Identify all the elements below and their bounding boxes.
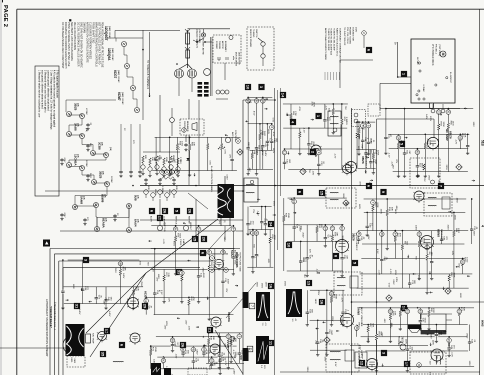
svg-text:140V: 140V: [272, 148, 274, 154]
svg-text:22V: 22V: [328, 108, 330, 112]
waveform 1: [256, 292, 270, 321]
switch contacts: [218, 57, 220, 60]
svg-text:4.5V: 4.5V: [298, 107, 300, 112]
svg-text:3: 3: [237, 336, 241, 338]
svg-text:-1.2V: -1.2V: [324, 105, 326, 111]
svg-text:MOTOR: MOTOR: [221, 41, 223, 49]
svg-text:POWER TUNING: POWER TUNING: [349, 27, 351, 45]
svg-text:75V: 75V: [335, 240, 337, 244]
yoke rail wire: [0, 347, 66, 349]
svg-text:3 Line Voltage maintained at: 3 Line Voltage maintained at 117 volts f…: [50, 70, 53, 130]
svg-text:32: 32: [388, 310, 392, 314]
svg-text:4.5V: 4.5V: [376, 249, 378, 254]
svg-text:[4A]: [4A]: [104, 194, 107, 198]
svg-text:-18V: -18V: [451, 250, 453, 255]
svg-text:-1.2V: -1.2V: [387, 152, 389, 158]
IF mesh b: [283, 103, 348, 105]
svg-text:24: 24: [396, 136, 400, 140]
svg-text:38: 38: [118, 262, 122, 266]
svg-text:135V: 135V: [468, 361, 470, 367]
svg-text:100K: 100K: [273, 235, 275, 241]
svg-text:75V: 75V: [308, 169, 310, 173]
svg-text:22V: 22V: [381, 332, 383, 336]
svg-text:47K: 47K: [336, 232, 338, 236]
svg-text:common ground, otherwise circu: common ground, otherwise circuit noted: [46, 70, 49, 111]
IF tube 2: [311, 145, 321, 155]
heater chain lower: [67, 112, 72, 117]
svg-text:140V: 140V: [150, 345, 152, 351]
svg-text:-18V: -18V: [390, 322, 392, 327]
svg-text:A PHOTOFACT STANDARD NOTATI: A PHOTOFACT STANDARD NOTATION SCHEMAT: [45, 299, 48, 357]
svg-text:265V: 265V: [331, 316, 333, 322]
svg-text:47/2AC: 47/2AC: [85, 108, 88, 115]
power pack terminals: [418, 62, 420, 64]
vert rails: [140, 219, 243, 221]
svg-text:2: 2: [160, 171, 164, 173]
svg-text:82K: 82K: [462, 307, 464, 311]
left lower mesh: [68, 259, 140, 261]
svg-text:[3A]: [3A]: [101, 142, 104, 146]
svg-text:82K: 82K: [371, 323, 373, 327]
svg-text:255V: 255V: [114, 268, 116, 274]
svg-text:1000: 1000: [466, 257, 468, 263]
svg-text:-1.2V: -1.2V: [212, 350, 214, 356]
svg-text:D: D: [248, 348, 252, 351]
svg-text:7: 7: [371, 202, 375, 204]
svg-text:SET TO PRODUCE 20 VOLT PEAK-TO: SET TO PRODUCE 20 VOLT PEAK-TO-: [98, 22, 101, 65]
section marker A: [43, 240, 50, 247]
svg-text:LINE SWITCH: LINE SWITCH: [237, 52, 239, 65]
svg-text:6BN8: 6BN8: [437, 229, 441, 237]
svg-text:4.5V: 4.5V: [253, 111, 255, 116]
svg-text:.0047: .0047: [374, 159, 376, 165]
svg-text:22/2AC: 22/2AC: [110, 176, 113, 183]
svg-text:1000: 1000: [181, 141, 183, 147]
IF tube 3: [336, 240, 349, 253]
svg-text:15: 15: [292, 200, 296, 204]
svg-text:265V: 265V: [341, 235, 343, 241]
svg-text:118V: 118V: [459, 293, 461, 298]
svg-text:4.5V: 4.5V: [358, 181, 360, 186]
svg-text:18K: 18K: [212, 336, 214, 340]
svg-text:5600: 5600: [421, 163, 423, 169]
svg-text:75V: 75V: [361, 144, 363, 148]
svg-text:15: 15: [447, 339, 451, 343]
svg-text:ONE OHM NOT SHOWN ON SCHEMATIC: ONE OHM NOT SHOWN ON SCHEMATIC: [79, 22, 82, 68]
svg-text:-1.2V: -1.2V: [224, 360, 226, 366]
svg-text:[2AB] 22/2AC: [2AB] 22/2AC: [108, 26, 111, 39]
svg-text:118V: 118V: [72, 284, 74, 289]
svg-text:-18V: -18V: [248, 167, 250, 172]
svg-text:[3A]: [3A]: [77, 103, 80, 107]
svg-text:135V: 135V: [455, 198, 457, 204]
bottom center mesh: [208, 332, 243, 334]
svg-text:59: 59: [417, 232, 421, 236]
ion trap: [86, 334, 91, 343]
svg-text:31: 31: [457, 310, 461, 314]
RF amp tube: [427, 137, 438, 148]
svg-text:4.5V: 4.5V: [138, 261, 140, 266]
svg-text:75V: 75V: [170, 169, 172, 173]
svg-text:15: 15: [182, 128, 186, 132]
svg-text:[2AB] 22/2AC: [2AB] 22/2AC: [111, 48, 114, 61]
svg-text:22V: 22V: [423, 178, 425, 182]
svg-text:0.5V: 0.5V: [223, 149, 225, 154]
svg-text:-1.2V: -1.2V: [303, 127, 305, 133]
svg-text:24: 24: [197, 227, 201, 231]
svg-text:36: 36: [254, 231, 258, 235]
svg-text:VERT LIN: VERT LIN: [163, 222, 165, 232]
svg-text:1MEG: 1MEG: [154, 189, 156, 195]
svg-text:7: 7: [250, 305, 254, 307]
svg-text:118V: 118V: [432, 340, 434, 345]
svg-text:47K: 47K: [192, 297, 194, 301]
svg-text:1000: 1000: [451, 121, 453, 127]
svg-text:12DQ6GT: 12DQ6GT: [104, 26, 108, 41]
svg-text:26: 26: [181, 343, 186, 348]
control circles row2: [144, 190, 149, 195]
svg-text:117VAC: 117VAC: [416, 57, 419, 65]
svg-text:[2A]: [2A]: [109, 147, 112, 151]
svg-text:RATIO DET: RATIO DET: [440, 229, 443, 241]
svg-text:140V: 140V: [360, 350, 362, 356]
svg-text:118V: 118V: [157, 274, 159, 279]
thermistor: [170, 118, 175, 123]
svg-text:TO TUNER AB TERMINALS: TO TUNER AB TERMINALS: [146, 60, 149, 89]
svg-text:ASSEMBLY: ASSEMBLY: [224, 41, 227, 53]
svg-text:-1.2V: -1.2V: [259, 129, 261, 135]
svg-text:34: 34: [393, 232, 397, 236]
svg-text:82K: 82K: [175, 186, 177, 190]
motor dashed box: [213, 35, 241, 63]
svg-text:50: 50: [161, 359, 165, 363]
svg-text:-18V: -18V: [367, 235, 369, 240]
svg-text:TUNER TB 380-010MF: TUNER TB 380-010MF: [333, 28, 335, 51]
svg-text:75V: 75V: [146, 262, 148, 266]
svg-text:0.5V: 0.5V: [208, 160, 210, 165]
waveform 2: [286, 289, 302, 317]
svg-text:35: 35: [101, 352, 106, 357]
corner mark: [0, 0, 3, 2]
svg-text:-18V: -18V: [249, 230, 251, 235]
svg-text:50: 50: [461, 260, 465, 264]
svg-text:[1AB] 22/2AC: [1AB] 22/2AC: [121, 92, 124, 105]
marker 16: [268, 283, 274, 289]
svg-text:WAVEFORMS TAKEN WITH CONTROLS: WAVEFORMS TAKEN WITH CONTROLS: [95, 22, 98, 67]
waveform 4: [151, 363, 161, 375]
svg-text:POWER, AB SW: POWER, AB SW: [202, 39, 205, 55]
svg-text:31: 31: [75, 304, 80, 309]
svg-text:82K: 82K: [144, 155, 146, 159]
svg-text:48: 48: [380, 232, 384, 236]
AGC pot: [225, 137, 230, 142]
svg-text:ARROWS ON CONTROLS INDICATE: ARROWS ON CONTROLS INDICATE: [85, 22, 88, 63]
svg-text:34: 34: [269, 222, 274, 227]
audio dashed box lower: [410, 352, 446, 374]
vert out tube: [128, 298, 139, 309]
svg-text:40: 40: [415, 150, 419, 154]
svg-text:VALUE OR APPLICATION: VALUE OR APPLICATION: [73, 22, 76, 50]
svg-text:.0047: .0047: [63, 212, 65, 218]
svg-text:135V: 135V: [394, 270, 396, 276]
svg-text:118V: 118V: [267, 129, 269, 134]
svg-text:40: 40: [355, 326, 359, 330]
svg-text:4.5V: 4.5V: [334, 362, 336, 367]
svg-text:-18V: -18V: [185, 320, 187, 325]
svg-text:5600: 5600: [263, 131, 265, 137]
svg-text:1000: 1000: [457, 228, 459, 234]
svg-text:20: 20: [202, 237, 207, 242]
svg-text:12: 12: [360, 361, 365, 366]
svg-text:19: 19: [261, 99, 265, 103]
svg-text:75V: 75V: [414, 256, 416, 260]
svg-text:0.5V: 0.5V: [160, 290, 162, 295]
svg-text:PAGE 2: PAGE 2: [2, 5, 8, 27]
B+ rail horizontal: [140, 185, 484, 187]
svg-text:75V: 75V: [344, 106, 346, 110]
vert blocking transformer: [218, 184, 235, 218]
power pack tab: [430, 103, 434, 109]
svg-text:31: 31: [357, 232, 361, 236]
svg-text:DC VOLTAGES MEASURED FROM POIN: DC VOLTAGES MEASURED FROM POINT: [61, 22, 64, 69]
waveform 5: [164, 368, 171, 375]
svg-text:-1.2V: -1.2V: [316, 269, 318, 275]
svg-text:22V: 22V: [167, 298, 169, 302]
heater wires lower: [66, 99, 116, 101]
svg-text:6BZ6: 6BZ6: [449, 131, 453, 139]
svg-text:140V: 140V: [108, 311, 110, 317]
svg-text:TUNER TB 380-010MF: TUNER TB 380-010MF: [327, 28, 329, 51]
vert osc tube: [214, 259, 223, 268]
output tube 6EA8A: [211, 317, 221, 327]
svg-text:3BZ6: 3BZ6: [361, 156, 365, 164]
svg-text:140V: 140V: [299, 226, 301, 232]
svg-text:5600: 5600: [89, 173, 91, 179]
svg-text:-18V: -18V: [324, 357, 326, 362]
svg-text:45: 45: [418, 310, 422, 314]
svg-text:75V: 75V: [218, 344, 220, 348]
svg-text:22V: 22V: [395, 159, 397, 163]
waveform letter squares: [249, 303, 255, 309]
svg-text:[1AB] 22/2AC: [1AB] 22/2AC: [117, 70, 120, 83]
svg-text:A11BY: A11BY: [150, 216, 153, 222]
svg-text:75V: 75V: [392, 165, 394, 169]
svg-text:120K: 120K: [376, 202, 378, 208]
svg-text:36: 36: [174, 227, 178, 231]
svg-text:22V: 22V: [428, 361, 430, 365]
svg-text:5600: 5600: [202, 273, 204, 279]
svg-text:PEAK VIDEO SIGNAL AT PICTURE T: PEAK VIDEO SIGNAL AT PICTURE TUBE: [101, 22, 104, 68]
scan edge strip: [0, 0, 2, 375]
svg-text:265V: 265V: [261, 283, 263, 289]
can circle plain: [204, 69, 211, 76]
svg-text:75V: 75V: [314, 340, 316, 344]
svg-text:140V: 140V: [415, 225, 417, 231]
deflection yoke: [63, 336, 81, 354]
rail y231: [60, 230, 243, 232]
svg-text:VOLUME: VOLUME: [397, 336, 399, 346]
svg-text:VHF POWER PACK: VHF POWER PACK: [431, 44, 434, 66]
svg-text:C1023: C1023: [179, 239, 181, 246]
svg-text:MOTOR DRIVE: MOTOR DRIVE: [235, 52, 237, 67]
svg-text:135V: 135V: [395, 277, 397, 283]
svg-text:2 Measured values use from so: 2 Measured values use from socket pin to: [43, 70, 46, 113]
bottom dashed box: [188, 368, 207, 375]
svg-text:140V: 140V: [314, 299, 316, 305]
svg-text:53: 53: [180, 271, 184, 275]
height control: [183, 225, 188, 230]
service switch squares row: [149, 208, 155, 214]
svg-text:39K: 39K: [124, 267, 126, 271]
svg-text:255V: 255V: [255, 282, 257, 288]
svg-text:37: 37: [202, 348, 206, 352]
svg-text:COMPONENT COMBINATIONS 22: COMPONENT COMBINATIONS 22: [338, 28, 341, 63]
svg-text:135V: 135V: [392, 279, 394, 285]
svg-text:-18V: -18V: [174, 354, 176, 359]
FM trap dashed box: [410, 158, 440, 188]
svg-text:C55, C56, C58 &: C55, C56, C58 &: [346, 27, 348, 44]
svg-text:-1.2V: -1.2V: [451, 352, 453, 358]
svg-text:14: 14: [281, 93, 286, 98]
svg-text:255V: 255V: [445, 165, 447, 171]
hatched can right: [188, 69, 197, 78]
svg-text:255V: 255V: [306, 367, 308, 373]
svg-text:(TOP VIEW): (TOP VIEW): [438, 44, 440, 56]
svg-text:57: 57: [210, 359, 214, 363]
svg-text:46: 46: [207, 250, 211, 254]
hatched can left: [175, 69, 184, 78]
svg-text:265V: 265V: [202, 268, 204, 274]
CRT beam lines: [90, 273, 146, 357]
svg-text:5600: 5600: [179, 233, 181, 239]
notes box: [35, 66, 59, 196]
svg-text:1000: 1000: [432, 308, 434, 314]
svg-text:16: 16: [320, 300, 325, 305]
svg-text:140V: 140V: [122, 273, 124, 279]
svg-text:8: 8: [417, 364, 421, 366]
nested corner rails: [49, 249, 51, 375]
svg-text:140V: 140V: [425, 114, 427, 120]
mid mesh left: [155, 136, 241, 138]
on-off switch symbol: [196, 41, 198, 43]
svg-text:DIAGRAM: DIAGRAM: [82, 22, 85, 33]
svg-text:2.2K: 2.2K: [167, 273, 169, 278]
svg-text:9: 9: [236, 140, 240, 142]
svg-text:140V: 140V: [438, 180, 440, 186]
svg-text:-1.2V: -1.2V: [162, 239, 164, 245]
svg-text:19: 19: [144, 299, 148, 303]
terminal dot circle: [201, 33, 205, 37]
svg-text:118V: 118V: [234, 351, 236, 356]
diodes: [176, 147, 179, 150]
svg-text:22V: 22V: [255, 149, 257, 153]
page frame top: [17, 8, 484, 10]
svg-text:DEFL: DEFL: [70, 358, 72, 364]
svg-text:20: 20: [181, 348, 185, 352]
svg-text:23: 23: [437, 110, 441, 114]
svg-text:140V: 140V: [312, 102, 314, 108]
vert amp tube: [130, 333, 140, 343]
svg-text:31: 31: [446, 110, 450, 114]
tuner mesh c: [364, 198, 467, 200]
svg-text:-18V: -18V: [383, 318, 385, 323]
yoke plug box: [67, 356, 85, 367]
cluster caps: [145, 178, 147, 179]
svg-text:3.3MEG: 3.3MEG: [161, 186, 163, 194]
svg-text:3.3MEG: 3.3MEG: [345, 117, 347, 125]
svg-text:140V: 140V: [78, 309, 80, 315]
boost bus triple: [274, 88, 276, 375]
svg-text:-18V: -18V: [311, 170, 313, 175]
svg-text:10: 10: [287, 243, 292, 248]
svg-text:CONNECTOR: CONNECTOR: [352, 27, 354, 41]
tube 6BN8 lower: [414, 191, 424, 201]
remote power dashed box: [247, 27, 274, 70]
audio coil box 2: [326, 344, 359, 372]
mixer dashed boxes: [351, 110, 365, 127]
right margin rule: [479, 9, 481, 375]
svg-text:4.5V: 4.5V: [310, 102, 312, 107]
svg-text:255V: 255V: [302, 257, 304, 263]
right divider: [351, 108, 353, 375]
svg-text:CLOCKWISE ROTATION VIEWED: CLOCKWISE ROTATION VIEWED: [88, 22, 91, 59]
IF mesh d: [288, 197, 347, 199]
svg-text:15: 15: [320, 191, 325, 196]
svg-text:3: 3: [165, 171, 169, 173]
svg-text:4 All controls are the normal: 4 All controls are the normal operation,…: [53, 70, 56, 128]
svg-text:VTVM, NO SIGNAL INPUT, 117VAC: VTVM, NO SIGNAL INPUT, 117VAC LINE: [67, 22, 70, 67]
audio rail: [352, 301, 484, 303]
junction parts: [362, 31, 367, 36]
svg-text:140V: 140V: [264, 151, 266, 157]
svg-text:255V: 255V: [272, 201, 274, 207]
svg-text:[2A]: [2A]: [77, 154, 80, 158]
svg-text:265V: 265V: [379, 209, 381, 215]
svg-text:6.3VAC: 6.3VAC: [422, 85, 425, 93]
IF mesh a: [249, 96, 272, 98]
svg-text:255V: 255V: [446, 225, 448, 231]
svg-text:135V: 135V: [472, 122, 474, 128]
svg-text:4.5V: 4.5V: [272, 132, 274, 137]
svg-text:150K: 150K: [154, 347, 156, 353]
svg-text:255V: 255V: [317, 290, 319, 296]
audio mesh: [359, 307, 474, 309]
svg-text:26: 26: [188, 209, 193, 214]
svg-text:18K: 18K: [394, 311, 396, 315]
svg-text:265V: 265V: [465, 333, 467, 339]
svg-text:140V: 140V: [405, 339, 407, 345]
svg-text:10: 10: [226, 335, 230, 339]
svg-text:11: 11: [282, 151, 286, 154]
svg-text:“CIRCUITRACE”: “CIRCUITRACE”: [49, 306, 53, 329]
svg-text:22V: 22V: [357, 146, 359, 150]
svg-text:B+ BOOST: B+ BOOST: [449, 72, 451, 84]
svg-text:2: 2: [270, 126, 274, 128]
svg-text:135V: 135V: [265, 282, 267, 288]
svg-text:[4A]: [4A]: [105, 218, 108, 222]
svg-text:22/2AC: 22/2AC: [85, 160, 88, 167]
svg-text:4.5V: 4.5V: [261, 151, 263, 156]
svg-text:1 Measured values run from so: 1 Measured values run from socket pin to…: [37, 70, 40, 118]
output transformer: [421, 314, 446, 334]
svg-text:12BQ6A: 12BQ6A: [107, 48, 111, 61]
svg-text:118V: 118V: [232, 369, 234, 374]
vert mesh2: [156, 336, 234, 338]
page frame left: [16, 9, 18, 375]
tuner mesh b: [386, 108, 473, 110]
vert blacksquares: [142, 303, 148, 309]
svg-text:265V: 265V: [302, 232, 304, 238]
